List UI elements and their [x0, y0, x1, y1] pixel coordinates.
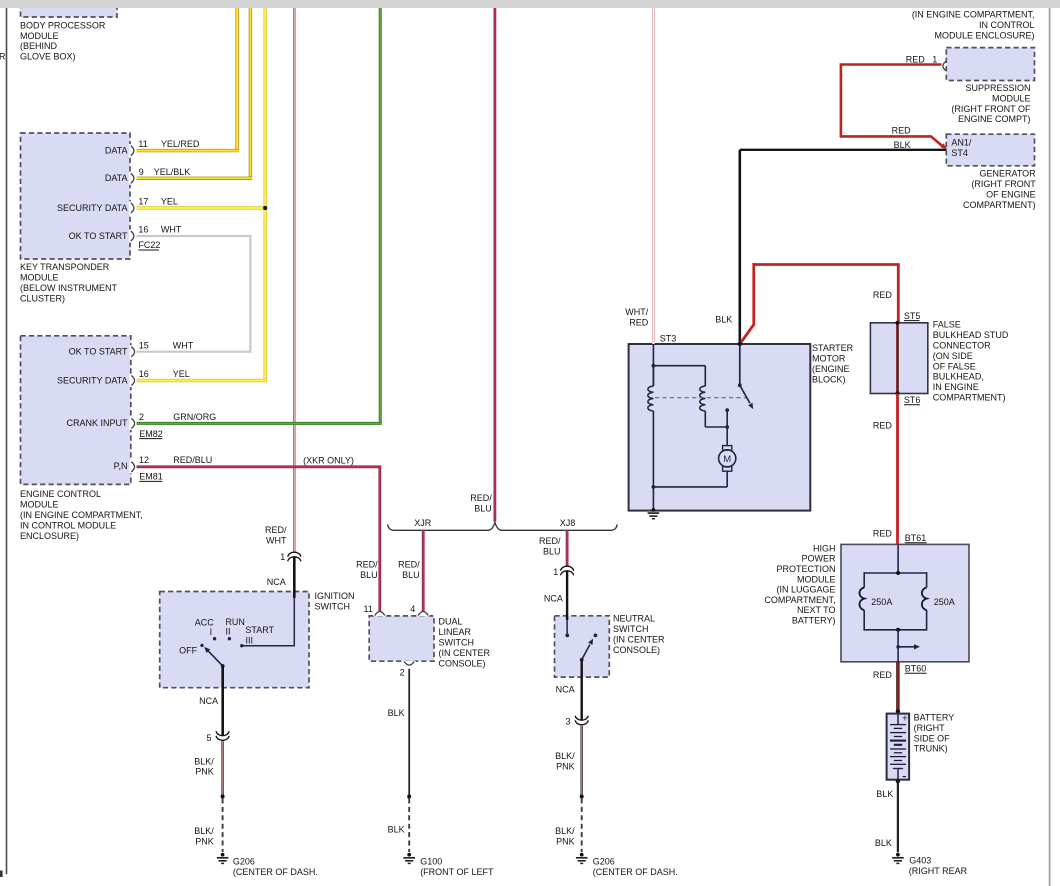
splice dot ignition ground wire — [221, 795, 225, 799]
high power protection module box — [841, 544, 969, 661]
svg-text:POWER: POWER — [801, 554, 836, 564]
svg-text:II: II — [225, 627, 230, 637]
svg-text:FALSE: FALSE — [933, 320, 961, 330]
fuse 250A left — [859, 587, 864, 610]
svg-text:OFF: OFF — [179, 646, 197, 656]
KTM pin 11 bracket — [129, 144, 132, 157]
svg-text:(RIGHT FRONT: (RIGHT FRONT — [971, 179, 1036, 189]
svg-text:2: 2 — [139, 412, 144, 422]
neutral switch blade with arrow — [582, 645, 590, 660]
starter internal left bus — [652, 344, 654, 386]
wire NCA BLK into neutral switch — [566, 571, 568, 620]
starter solenoid pull-in coil (left) — [652, 366, 654, 386]
svg-text:5: 5 — [206, 733, 211, 743]
svg-text:PNK: PNK — [195, 836, 214, 846]
splice dot DLS ground wire — [407, 795, 411, 799]
ground G403 (right rear) — [892, 853, 904, 864]
KTM pin 9 bracket — [129, 172, 132, 185]
neutral blade pivot dot — [580, 658, 584, 662]
svg-text:MODULE: MODULE — [20, 273, 59, 283]
generator AN1/ST4 box — [946, 134, 1034, 166]
svg-text:BLU: BLU — [474, 503, 492, 513]
svg-text:RED: RED — [892, 126, 912, 136]
wire YEL/BLK vertical from top — [249, 8, 252, 178]
dashed wire to ground G206 — [222, 799, 224, 853]
svg-text:BULKHEAD STUD: BULKHEAD STUD — [933, 330, 1009, 340]
starter switch blade with arrow — [740, 385, 750, 403]
wire RED through ST5/ST6 connector — [896, 323, 899, 394]
ignition RUN contact dot — [228, 637, 231, 640]
ground G206 (center of dash) — [217, 853, 229, 864]
svg-text:CONSOLE): CONSOLE) — [613, 645, 660, 655]
svg-text:KEY TRANSPONDER: KEY TRANSPONDER — [20, 262, 110, 272]
svg-text:BULKHEAD,: BULKHEAD, — [933, 372, 984, 382]
dashed wire to ground G206 (neutral) — [581, 799, 583, 853]
wire GRN/ORG ECM crank input horizontal — [137, 422, 382, 425]
connector 3 (double arc) — [575, 716, 588, 725]
svg-text:250A: 250A — [871, 597, 892, 607]
splice dot neutral ground wire — [580, 795, 584, 799]
svg-text:(ON SIDE: (ON SIDE — [933, 351, 973, 361]
svg-text:BLK: BLK — [876, 789, 893, 799]
DLS pin 11 arc — [373, 614, 386, 617]
svg-text:BLK/: BLK/ — [194, 826, 214, 836]
svg-text:RED/BLU: RED/BLU — [173, 455, 212, 465]
svg-text:(IN CENTER: (IN CENTER — [613, 634, 665, 644]
starter internal top link — [653, 365, 705, 367]
svg-text:(BEHIND: (BEHIND — [20, 41, 58, 51]
svg-text:CONNECTOR: CONNECTOR — [933, 341, 991, 351]
svg-text:16: 16 — [138, 225, 148, 235]
wire NCA BLK into ignition switch — [293, 557, 296, 598]
svg-text:COMPARTMENT,: COMPARTMENT, — [764, 595, 835, 605]
wire BLK from generator down to starter — [738, 150, 741, 344]
svg-text:RED: RED — [906, 54, 926, 64]
key transponder module box — [21, 133, 131, 259]
svg-text:11: 11 — [363, 604, 372, 614]
arrowhead RED at AN1/ST4 pin — [940, 143, 947, 149]
HPPM input wire — [897, 544, 899, 573]
svg-text:I: I — [210, 627, 213, 637]
svg-text:BLU: BLU — [360, 570, 378, 580]
svg-text:XJR: XJR — [414, 518, 432, 528]
dashed wire to ground G100 — [408, 799, 410, 853]
svg-text:RED/: RED/ — [356, 560, 378, 570]
svg-text:RED: RED — [873, 421, 893, 431]
starter case ground — [648, 508, 660, 519]
battery box — [887, 714, 910, 780]
wire RED starter hat: left leg — [752, 263, 755, 325]
svg-text:ENCLOSURE): ENCLOSURE) — [20, 531, 79, 541]
svg-text:XJ8: XJ8 — [560, 518, 576, 528]
svg-text:BLK/: BLK/ — [555, 826, 575, 836]
ECM pin 12 bracket — [130, 460, 133, 473]
ECM pin 15 bracket — [130, 345, 133, 358]
svg-text:PNK: PNK — [195, 767, 214, 777]
suppression module pin 1 bracket — [943, 62, 946, 71]
svg-text:YEL/BLK: YEL/BLK — [154, 167, 191, 177]
svg-text:WHT: WHT — [173, 340, 194, 350]
svg-text:4: 4 — [410, 604, 415, 614]
svg-text:CRANK INPUT: CRANK INPUT — [66, 418, 128, 428]
svg-text:+: + — [902, 713, 908, 725]
starter link coil-bottom to motor branch — [705, 426, 727, 428]
svg-text:COMPARTMENT): COMPARTMENT) — [963, 200, 1036, 210]
svg-text:(XKR ONLY): (XKR ONLY) — [303, 455, 354, 465]
starter solenoid plunger dashed link — [655, 397, 746, 399]
svg-text:IN ENGINE: IN ENGINE — [933, 382, 979, 392]
svg-text:WHT/: WHT/ — [625, 307, 648, 317]
wire RED generator jumper: suppression pin1 to AN1/ST4 — [841, 65, 944, 148]
svg-text:GRN/ORG: GRN/ORG — [173, 412, 216, 422]
svg-text:ST3: ST3 — [660, 333, 677, 343]
wire RED ST6 down to high power protection module — [896, 394, 899, 545]
ground G100 (front of left) — [403, 853, 415, 864]
svg-text:16: 16 — [139, 369, 149, 379]
wire RED/BLU XKR vertical down to DLS pin 11 — [378, 467, 381, 612]
ECM pin 16 bracket — [130, 374, 133, 387]
svg-text:(CENTER OF DASH.: (CENTER OF DASH. — [593, 867, 678, 877]
svg-text:NCA: NCA — [199, 696, 218, 706]
svg-text:SIDE OF: SIDE OF — [914, 733, 951, 743]
svg-text:IGNITION: IGNITION — [315, 591, 355, 601]
svg-text:BLK: BLK — [715, 314, 732, 324]
svg-text:RED: RED — [873, 529, 893, 539]
svg-text:(RIGHT: (RIGHT — [914, 723, 945, 733]
ignition switch box — [160, 592, 309, 688]
wire RED/BLU center vertical from top to brace — [493, 8, 496, 522]
svg-text:SECURITY DATA: SECURITY DATA — [57, 375, 128, 385]
svg-text:9: 9 — [139, 167, 144, 177]
ignition ACC contact dot — [213, 637, 216, 640]
KTM pin 17 bracket — [129, 202, 132, 215]
brace splice symbol XJR/XJ8 — [388, 522, 618, 530]
wire RED starter hat: right leg to ST5 — [897, 265, 900, 323]
svg-text:G206: G206 — [593, 856, 615, 866]
svg-text:3: 3 — [565, 717, 570, 727]
svg-text:ST5: ST5 — [904, 311, 921, 321]
svg-text:BLU: BLU — [543, 546, 561, 556]
svg-text:YEL: YEL — [161, 197, 178, 207]
svg-text:RED/: RED/ — [539, 536, 561, 546]
svg-text:YEL/RED: YEL/RED — [161, 139, 200, 149]
svg-text:ST4: ST4 — [951, 148, 968, 158]
svg-text:FC22: FC22 — [138, 240, 160, 250]
svg-text:(IN LUGGAGE: (IN LUGGAGE — [776, 585, 835, 595]
starter motor box — [629, 344, 811, 511]
svg-text:MODULE: MODULE — [20, 31, 59, 41]
connector 1 RED/WHT to NCA (double arc) — [288, 552, 301, 561]
starter internal junction dots — [652, 364, 656, 368]
svg-text:HIGH: HIGH — [813, 543, 836, 553]
svg-text:SECURITY DATA: SECURITY DATA — [57, 203, 128, 213]
svg-text:RED/: RED/ — [398, 560, 420, 570]
svg-text:(RIGHT REAR: (RIGHT REAR — [909, 866, 968, 876]
svg-text:BT61: BT61 — [905, 533, 927, 543]
wire WHT/RED vertical from top to starter ST3 — [652, 8, 655, 344]
svg-text:III: III — [246, 635, 254, 645]
battery negative terminal dot — [896, 779, 900, 783]
svg-text:1: 1 — [553, 567, 558, 577]
wire YEL pin 17 horizontal — [137, 206, 267, 209]
svg-text:(BELOW INSTRUMENT: (BELOW INSTRUMENT — [20, 283, 118, 293]
svg-text:250A: 250A — [934, 597, 955, 607]
junction dot YEL at x265 — [263, 206, 267, 210]
ignition blade pivot dot — [221, 664, 225, 668]
svg-text:CONSOLE): CONSOLE) — [439, 658, 486, 668]
wire RED/BLU XJ8 branch vertical to connector — [566, 530, 569, 566]
svg-text:EM82: EM82 — [139, 429, 163, 439]
svg-text:RED/: RED/ — [470, 493, 492, 503]
svg-text:17: 17 — [138, 197, 148, 207]
svg-text:GLOVE BOX): GLOVE BOX) — [20, 52, 76, 62]
svg-text:SUPPRESSION: SUPPRESSION — [965, 83, 1030, 93]
svg-text:NCA: NCA — [544, 594, 563, 604]
svg-text:OK TO START: OK TO START — [69, 347, 128, 357]
svg-text:BLOCK): BLOCK) — [812, 374, 846, 384]
HPPM loop junction dots — [896, 571, 900, 575]
ground G206 (neutral switch) — [576, 853, 588, 864]
wire BLK/PNK neutral to splice — [580, 726, 583, 797]
svg-text:BATTERY): BATTERY) — [792, 616, 836, 626]
connector 5 (double arc) — [216, 731, 229, 740]
svg-text:NCA: NCA — [267, 577, 286, 587]
HPPM output wire with tap arrow — [897, 630, 899, 662]
wire RED/BLU ECM pin 12 horizontal (XKR ONLY) — [137, 465, 382, 468]
svg-text:ENGINE CONTROL: ENGINE CONTROL — [20, 489, 101, 499]
svg-text:WHT: WHT — [161, 225, 182, 235]
wire RED diagonal into starter terminal — [740, 325, 754, 344]
svg-text:TRUNK): TRUNK) — [914, 744, 948, 754]
svg-text:15: 15 — [139, 340, 149, 350]
svg-text:BT60: BT60 — [905, 664, 927, 674]
svg-text:MOTOR: MOTOR — [812, 354, 846, 364]
svg-text:SWITCH: SWITCH — [315, 602, 351, 612]
svg-text:R: R — [0, 52, 6, 62]
svg-text:MODULE: MODULE — [992, 93, 1031, 103]
wire YEL/BLK pin 9 horizontal — [137, 177, 253, 180]
svg-text:BATTERY: BATTERY — [914, 713, 955, 723]
svg-text:DUAL: DUAL — [439, 617, 463, 627]
svg-text:NEUTRAL: NEUTRAL — [613, 614, 655, 624]
DLS pin 2 arc — [403, 661, 416, 664]
starter motor to bottom bus — [726, 471, 728, 487]
svg-text:MODULE: MODULE — [20, 500, 59, 510]
svg-text:ST6: ST6 — [904, 395, 921, 405]
svg-text:ENGINE COMPT): ENGINE COMPT) — [958, 114, 1031, 124]
fuse 250A right — [922, 587, 927, 610]
svg-text:COMPARTMENT): COMPARTMENT) — [933, 393, 1006, 403]
svg-text:OF FALSE: OF FALSE — [933, 361, 976, 371]
svg-text:(CENTER OF DASH.: (CENTER OF DASH. — [233, 867, 318, 877]
svg-text:G206: G206 — [233, 856, 255, 866]
svg-text:SWITCH: SWITCH — [439, 638, 475, 648]
starter contact stub — [726, 410, 728, 427]
wire RED starter hat: top — [752, 263, 899, 266]
svg-text:BLK: BLK — [388, 708, 405, 718]
svg-text:BLK: BLK — [388, 825, 405, 835]
ST5 terminal dot — [895, 321, 899, 325]
ignition START contact dot — [240, 644, 243, 647]
wire RED (RED/WHT circuit) vertical from top to ignition connector — [293, 8, 296, 553]
svg-text:BLK: BLK — [875, 838, 892, 848]
wire GRN/ORG vertical from top — [379, 8, 382, 423]
ECM pin 2 bracket — [130, 417, 133, 430]
svg-text:START: START — [245, 625, 274, 635]
starter solenoid hold coil (right) — [704, 366, 706, 386]
svg-text:2: 2 — [400, 668, 405, 678]
starter motor M symbol — [726, 427, 728, 446]
svg-text:BLU: BLU — [402, 570, 420, 580]
svg-text:PNK: PNK — [556, 762, 575, 772]
wire YEL/RED pin 11 horizontal — [137, 149, 239, 152]
svg-text:G100: G100 — [420, 856, 442, 866]
svg-text:MODULE ENCLOSURE): MODULE ENCLOSURE) — [934, 30, 1034, 40]
svg-text:(IN CENTER: (IN CENTER — [439, 648, 491, 658]
svg-text:OK TO START: OK TO START — [69, 231, 128, 241]
svg-text:M: M — [723, 454, 731, 465]
wire WHT ECM pin 15 horizontal — [137, 351, 252, 353]
page right border — [1049, 8, 1051, 886]
svg-text:(ENGINE: (ENGINE — [812, 364, 850, 374]
svg-text:IN CONTROL: IN CONTROL — [979, 20, 1035, 30]
svg-text:AN1/: AN1/ — [951, 138, 972, 148]
ignition OFF contact dot — [200, 644, 203, 647]
svg-text:PNK: PNK — [556, 836, 575, 846]
wire RED (dark) HPPM to battery — [896, 662, 899, 712]
svg-text:1: 1 — [932, 54, 937, 64]
svg-text:NEXT TO: NEXT TO — [797, 605, 836, 615]
svg-text:SWITCH: SWITCH — [613, 624, 649, 634]
DLS pin 4 arc — [417, 614, 430, 617]
wire YEL ECM pin 16 horizontal — [137, 379, 267, 382]
suppression module box — [946, 48, 1034, 81]
neutral switch box — [555, 616, 610, 677]
wire WHT pin 16 KTM horizontal — [137, 235, 251, 237]
ST6 terminal dot — [895, 391, 899, 395]
svg-text:G403: G403 — [909, 856, 931, 866]
svg-text:CLUSTER): CLUSTER) — [20, 293, 65, 303]
svg-text:(FRONT OF LEFT: (FRONT OF LEFT — [420, 867, 494, 877]
wire YEL vertical from top to ECM pin 16 — [264, 8, 267, 381]
connector 1 XJ8 RED/BLU to NCA (double arc) — [561, 566, 574, 575]
KTM pin 16 bracket — [129, 230, 132, 243]
wire YEL/RED vertical from top — [235, 8, 238, 151]
dual linear switch box — [369, 616, 434, 661]
HPPM fuse loop rails — [864, 572, 926, 574]
svg-text:MODULE: MODULE — [797, 574, 836, 584]
svg-text:(RIGHT FRONT OF: (RIGHT FRONT OF — [951, 104, 1031, 114]
svg-text:NCA: NCA — [556, 685, 575, 695]
wire from ignition blade down to connector 5 — [221, 666, 224, 736]
battery internal plates — [897, 714, 899, 725]
battery minus sign — [903, 776, 906, 778]
wire BLK battery to ground — [897, 781, 899, 852]
svg-text:IN CONTROL MODULE: IN CONTROL MODULE — [20, 520, 116, 530]
ignition switch blade with arrow — [208, 651, 222, 666]
svg-text:BLK: BLK — [894, 140, 911, 150]
wire from neutral blade down to connector 3 — [581, 660, 583, 720]
svg-text:PROTECTION: PROTECTION — [776, 564, 835, 574]
wire WHT vertical — [249, 235, 251, 353]
battery positive terminal dot — [896, 709, 900, 713]
top window bar — [0, 0, 1060, 8]
svg-text:DATA: DATA — [105, 173, 128, 183]
wire BLK generator horizontal — [740, 149, 947, 151]
svg-text:BODY PROCESSOR: BODY PROCESSOR — [20, 20, 106, 30]
body processor module box (partial, top edge hidden) — [21, 0, 118, 17]
svg-text:12: 12 — [139, 455, 149, 465]
page left border — [6, 8, 8, 874]
svg-text:WHT: WHT — [266, 536, 287, 546]
svg-text:STARTER: STARTER — [812, 343, 854, 353]
ignition internal wire to START contact — [242, 645, 295, 647]
starter switch fixed contact — [739, 344, 741, 385]
svg-text:(IN ENGINE COMPARTMENT,: (IN ENGINE COMPARTMENT, — [20, 510, 143, 520]
svg-text:BLK/: BLK/ — [194, 756, 214, 766]
neutral switch input contact dot — [565, 634, 569, 638]
svg-text:RED: RED — [873, 290, 893, 300]
svg-text:RED: RED — [629, 317, 649, 327]
wire RED/BLU XJR branch vertical to DLS pin 4 — [422, 530, 425, 611]
svg-text:YEL: YEL — [173, 369, 190, 379]
svg-text:BLK/: BLK/ — [555, 751, 575, 761]
svg-text:RED: RED — [873, 670, 893, 680]
starter terminal junction dot — [738, 342, 742, 346]
svg-text:OF ENGINE: OF ENGINE — [986, 189, 1036, 199]
wire BLK DLS pin 2 down to splice — [408, 669, 410, 797]
partial mark at bottom left edge — [0, 871, 3, 878]
svg-text:P,N: P,N — [114, 461, 128, 471]
svg-text:LINEAR: LINEAR — [439, 627, 472, 637]
svg-text:RED/: RED/ — [265, 525, 287, 535]
false bulkhead stud connector ST5/ST6 box — [870, 323, 927, 394]
svg-text:DATA: DATA — [105, 145, 128, 155]
svg-text:GENERATOR: GENERATOR — [980, 169, 1037, 179]
neutral switch output contact dot — [594, 634, 598, 638]
wire BLK/PNK ignition to splice — [221, 741, 224, 796]
svg-text:1: 1 — [280, 552, 285, 562]
engine control module box — [21, 336, 131, 485]
svg-text:(IN ENGINE COMPARTMENT,: (IN ENGINE COMPARTMENT, — [912, 10, 1035, 20]
svg-text:EM81: EM81 — [139, 472, 163, 482]
svg-text:11: 11 — [138, 139, 147, 149]
